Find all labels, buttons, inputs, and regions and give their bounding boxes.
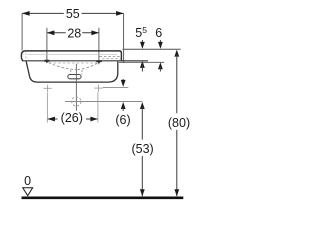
bowl outline bbox=[26, 61, 118, 82]
bracket underside line L2 bbox=[119, 61, 164, 63]
dim (80) vertical line bbox=[174, 50, 179, 197]
basin rim outline bbox=[21, 51, 121, 61]
svg-text:28: 28 bbox=[67, 26, 81, 40]
dim 5.5 top arrow bbox=[140, 40, 145, 49]
drain centerline bbox=[75, 64, 77, 111]
svg-text:(53): (53) bbox=[131, 142, 153, 156]
svg-text:6: 6 bbox=[155, 26, 162, 40]
line A (fixation level) bbox=[103, 87, 129, 89]
drain cylinder hidden sides bbox=[70, 70, 72, 74]
dim (26) line bbox=[47, 117, 98, 122]
svg-text:(6): (6) bbox=[115, 113, 130, 127]
dim (53) vertical line bbox=[140, 102, 145, 196]
extension line 28 right bbox=[98, 28, 100, 65]
hidden bowl inner edge right (dashed V) bbox=[77, 63, 98, 69]
top reference line bbox=[123, 48, 181, 50]
extension line 55 right / basin back edge bbox=[123, 13, 125, 63]
inner edge marker right bbox=[96, 60, 102, 63]
svg-text:(26): (26) bbox=[61, 111, 83, 125]
dim (6) arrows bbox=[121, 79, 126, 111]
dim 6 bottom arrow bbox=[158, 62, 163, 71]
rim inner top edge faint line bbox=[27, 53, 117, 55]
hidden bracket dashes in rim back bbox=[100, 55, 121, 57]
trap outlet circle-cross bbox=[72, 97, 81, 106]
svg-text:(80): (80) bbox=[168, 116, 190, 130]
datum triangle bbox=[23, 188, 33, 196]
line B (trap outlet level) bbox=[65, 101, 142, 103]
fixation cross left bbox=[43, 85, 51, 92]
fixation cross right bbox=[94, 85, 102, 92]
hidden inner bowl top edge bbox=[49, 62, 97, 64]
floor line bbox=[22, 197, 184, 200]
hidden bowl inner edge left (dashed V) bbox=[49, 63, 77, 70]
inner edge marker left bbox=[44, 60, 50, 63]
dimension 55 line bbox=[22, 11, 124, 16]
svg-text:55: 55 bbox=[66, 7, 80, 21]
dimension 28 line bbox=[47, 30, 99, 35]
extension (26) left bbox=[46, 93, 48, 123]
extension line 55 left bbox=[21, 13, 23, 50]
dim 6 top arrow bbox=[158, 40, 163, 49]
svg-text:0: 0 bbox=[24, 174, 31, 188]
rim front inner dashed edge bbox=[25, 53, 27, 60]
drain stadium bbox=[68, 75, 81, 79]
dim 5.5 bottom arrow bbox=[140, 61, 145, 72]
rim underside line L1 bbox=[22, 60, 148, 62]
extension (26) right bbox=[97, 92, 99, 122]
extension line 28 left bbox=[46, 28, 48, 61]
